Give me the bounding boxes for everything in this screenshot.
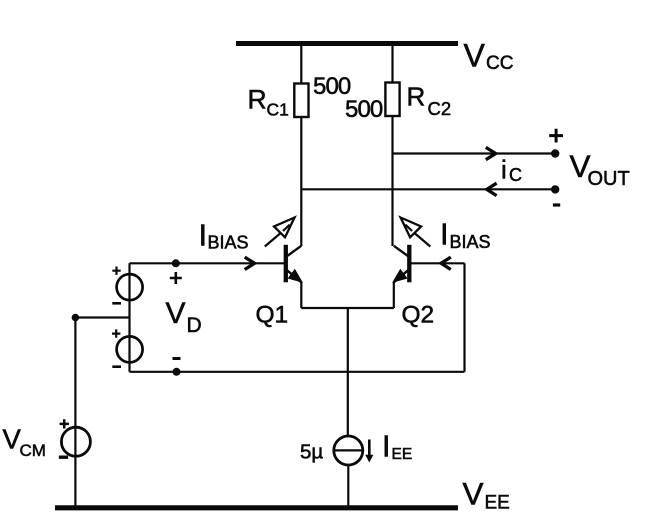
svg-text:C1: C1 xyxy=(267,100,289,120)
svg-text:D: D xyxy=(187,314,202,337)
svg-text:CC: CC xyxy=(486,53,513,74)
svg-text:500: 500 xyxy=(345,96,383,123)
svg-text:Q1: Q1 xyxy=(256,302,289,329)
svg-text:EE: EE xyxy=(392,446,413,463)
svg-text:I: I xyxy=(199,218,208,253)
svg-text:V: V xyxy=(464,37,486,73)
svg-text:Q2: Q2 xyxy=(402,302,435,329)
svg-text:C2: C2 xyxy=(428,98,452,119)
svg-text:BIAS: BIAS xyxy=(208,232,249,252)
svg-text:C: C xyxy=(509,165,522,185)
svg-text:R: R xyxy=(248,85,267,115)
svg-text:I: I xyxy=(382,430,390,464)
svg-text:EE: EE xyxy=(485,492,510,513)
svg-text:CM: CM xyxy=(20,441,46,460)
svg-text:V: V xyxy=(463,476,484,512)
svg-text:R: R xyxy=(407,82,426,112)
svg-text:OUT: OUT xyxy=(588,168,630,190)
svg-text:i: i xyxy=(501,155,507,185)
svg-text:BIAS: BIAS xyxy=(450,232,491,252)
svg-text:I: I xyxy=(440,217,449,252)
svg-text:V: V xyxy=(166,297,186,330)
svg-text:5µ: 5µ xyxy=(300,441,323,464)
